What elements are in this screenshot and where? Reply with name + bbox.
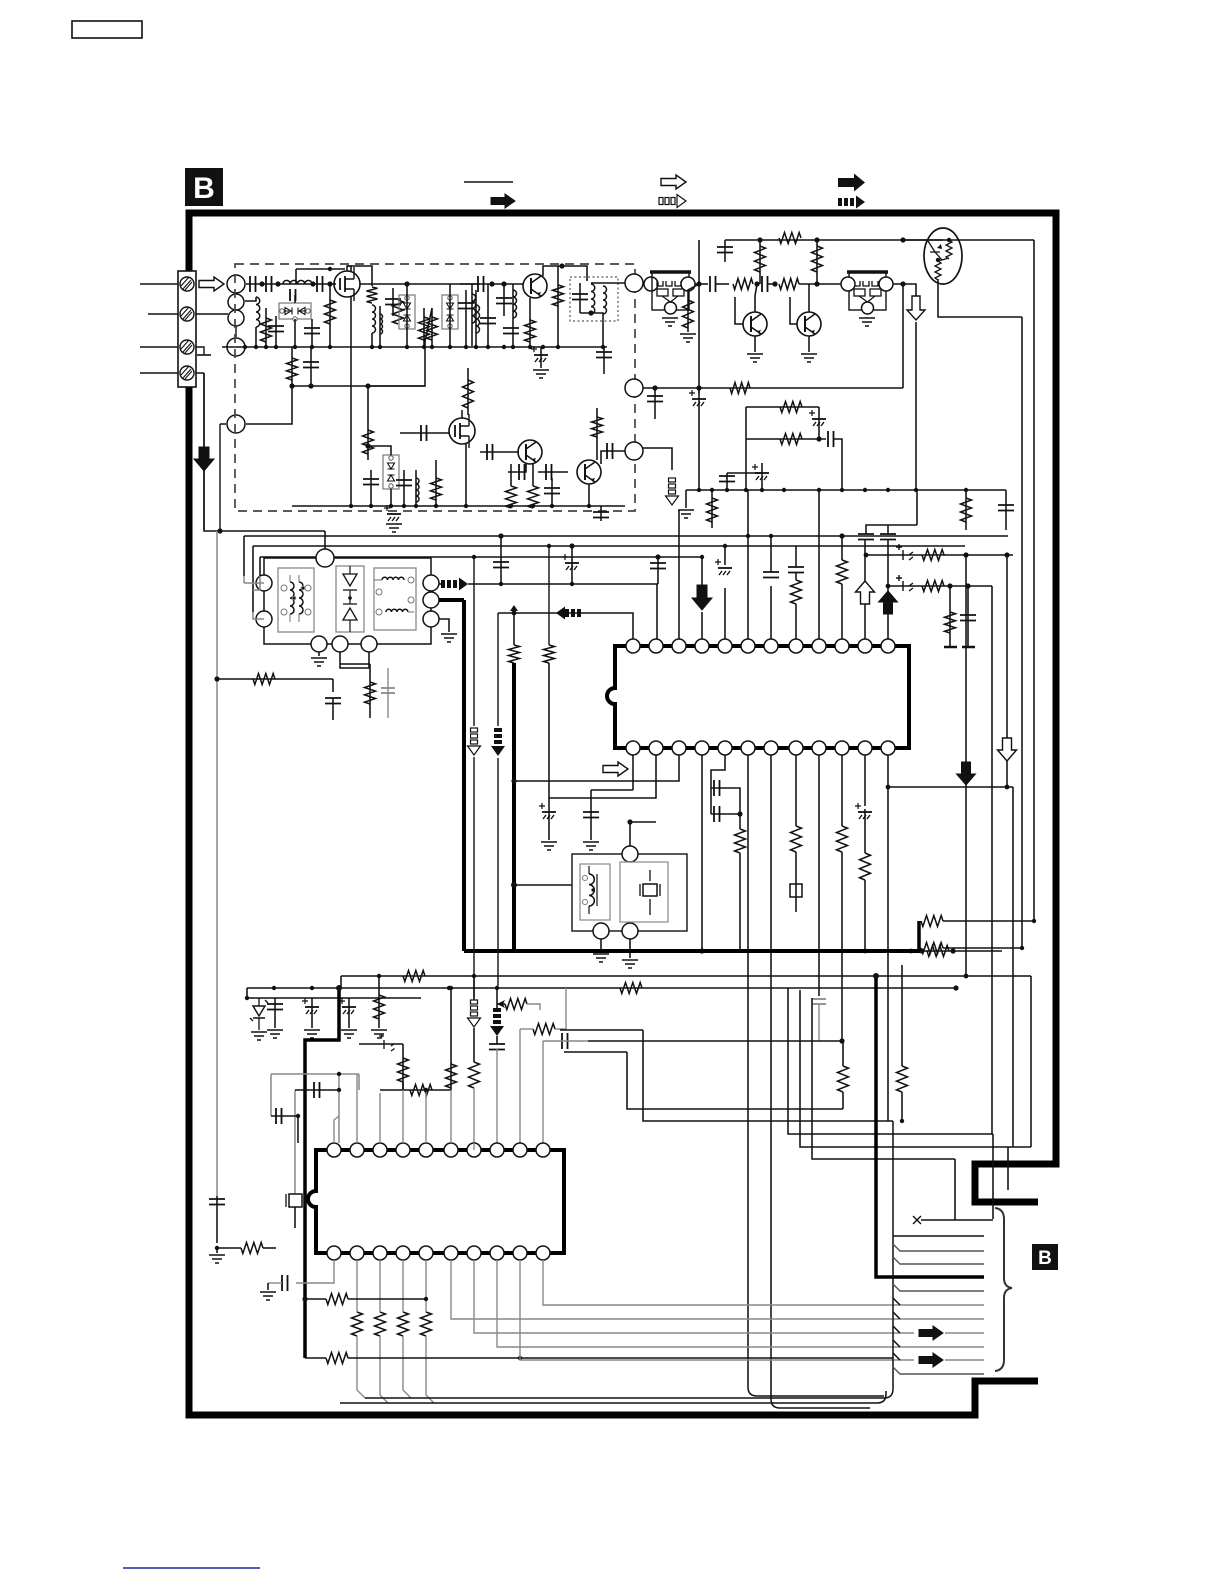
connector brace (right) <box>995 1208 1012 1371</box>
wire x812 elbow <box>812 998 955 1159</box>
wire U2 p11 down <box>543 1260 984 1305</box>
signal arrow (dashed hollow down) <box>669 478 676 482</box>
junction <box>570 582 574 586</box>
wire R14 <box>532 464 534 486</box>
wire C55 <box>311 998 313 1028</box>
ground <box>209 1255 225 1263</box>
capacitor C20 <box>487 444 493 460</box>
saw b2 stub <box>340 652 369 668</box>
wire FET source down <box>350 297 352 506</box>
wire C42 <box>657 557 659 584</box>
ground <box>341 1030 357 1038</box>
wire thick stub up <box>917 921 921 951</box>
capacitor C23 <box>546 464 552 480</box>
resistor R39 <box>374 995 385 1019</box>
wire U1 p18 down <box>770 755 772 1399</box>
wire y948 right <box>943 947 1022 949</box>
wire R10 <box>367 386 369 460</box>
inductor L5 <box>476 305 480 333</box>
feeder jog <box>893 1353 900 1360</box>
junction <box>900 237 905 242</box>
wire saw right1 <box>439 583 441 585</box>
junction <box>215 1246 219 1250</box>
wire t1 top <box>629 822 631 846</box>
wire Q2 collector <box>543 266 587 281</box>
junction <box>336 985 342 991</box>
VCC arrow (hollow up) <box>856 581 875 604</box>
ground <box>662 318 678 326</box>
resistor R11 <box>431 478 442 500</box>
row y555 <box>866 554 1013 556</box>
SAW right port 3 <box>423 611 439 627</box>
bundle line 1 <box>921 1219 993 1221</box>
B+ trace (thick) <box>305 988 339 1358</box>
transistor Q5 <box>577 460 601 484</box>
capacitor C2 <box>266 276 272 292</box>
wire U2 p7 up <box>473 1143 475 1150</box>
wire osc base row <box>460 283 524 285</box>
wire Q3 up <box>461 410 463 418</box>
wire terminal4 down <box>196 373 204 530</box>
wire c46 up <box>724 546 726 565</box>
diode box D3/D4 <box>399 295 415 329</box>
wire U1 p4 up <box>701 612 703 639</box>
power left stub <box>246 988 248 998</box>
wire U2 p12 down <box>520 1260 914 1360</box>
gray v339 <box>338 1074 340 1143</box>
ground <box>801 354 817 362</box>
wire x497 down <box>496 1036 498 1044</box>
junction <box>449 986 453 990</box>
resistor R2 <box>261 318 272 342</box>
wire q7 emitter <box>808 336 810 352</box>
junction <box>511 882 517 888</box>
wire q8 top <box>902 239 943 241</box>
wire r46 out <box>555 988 566 1029</box>
U1 pin 23 (bottom) <box>649 741 663 755</box>
junction <box>328 267 332 271</box>
wire R39 <box>378 976 380 1028</box>
capacitor C54 <box>267 1004 283 1010</box>
wire to filter2 <box>799 283 848 285</box>
section label B (bottom right) <box>1032 1244 1058 1270</box>
port (tuner AGC) <box>625 442 643 460</box>
junction <box>414 504 418 508</box>
wire r46 wire <box>520 1028 533 1030</box>
wire saw out thick <box>439 598 464 602</box>
port (tuner B+) <box>625 379 643 397</box>
transistor Q2 (oscillator) <box>523 274 547 298</box>
U2 pin 14 (bottom) <box>467 1246 481 1260</box>
wire r33 down <box>841 852 843 1041</box>
wire x474 pin <box>473 1088 475 1143</box>
junction <box>310 281 315 286</box>
rail y976 down <box>1030 976 1032 1147</box>
wire x549 upper <box>548 546 550 645</box>
capacitor C37 <box>858 534 874 540</box>
wire x474 up <box>473 976 475 1000</box>
junction <box>965 583 970 588</box>
junction <box>502 345 506 349</box>
junction <box>914 488 918 492</box>
U1 pin 24 (bottom) <box>626 741 640 755</box>
wire osc out <box>591 282 626 284</box>
wire c74 <box>967 586 969 646</box>
capacitor C17 <box>363 479 379 485</box>
wire c33 out <box>833 439 842 490</box>
resistor R10 <box>363 430 374 454</box>
inductor L4 <box>380 314 383 334</box>
U2 pin 8 (top) <box>490 1143 504 1157</box>
junction <box>370 345 374 349</box>
wire R12 <box>467 368 469 415</box>
wire U1 p14 down <box>864 755 866 806</box>
junction <box>587 504 591 508</box>
wire C13 <box>579 283 581 313</box>
junction <box>509 504 513 508</box>
wire y1358 <box>305 1357 326 1359</box>
junction <box>274 345 278 349</box>
wire dbox down <box>294 319 296 346</box>
gray wire saw left1 <box>256 582 264 584</box>
junction <box>464 504 468 508</box>
capacitor C62 <box>209 1199 225 1205</box>
row y586 <box>888 585 992 587</box>
capacitor C28 <box>762 276 768 292</box>
wire r43 merge <box>402 1082 404 1090</box>
inductor L6 <box>472 294 476 323</box>
junction <box>430 345 434 349</box>
ground <box>678 510 694 518</box>
wire y1041 right <box>588 1040 843 1042</box>
wire x992 elbow <box>992 1133 993 1135</box>
capacitor C47 <box>763 572 779 578</box>
transistor Q4 <box>518 440 542 464</box>
U2 pin 18 (bottom) <box>373 1246 387 1260</box>
junction <box>501 281 506 286</box>
wire x746b <box>745 439 747 490</box>
transistor Q8 (AGC, oval) <box>924 228 962 284</box>
wire mixer gate <box>400 432 450 434</box>
ground <box>441 634 457 642</box>
wire C36 <box>1005 490 1007 530</box>
wire r73 <box>949 586 951 646</box>
junction <box>886 584 891 589</box>
wire x497 pin <box>496 1049 498 1143</box>
wire C54 <box>274 998 276 1028</box>
electrolytic C53 <box>858 811 872 813</box>
wire y1030 <box>560 1029 643 1031</box>
junction <box>404 281 409 286</box>
capacitor C8 <box>458 303 474 309</box>
resistor R73 <box>945 612 956 633</box>
signal arrow (dashed hollow down) <box>471 1000 478 1004</box>
wire U2 p20 down <box>296 1260 334 1283</box>
U1 pin 18 (bottom) <box>764 741 778 755</box>
node E <box>227 415 245 433</box>
supply line x1007 <box>1006 555 1008 738</box>
gray v359 <box>358 1074 360 1090</box>
junction <box>950 948 955 953</box>
SAW inner diode cell <box>336 566 364 632</box>
wire x1 out <box>695 283 708 285</box>
capacitor C18 <box>396 480 412 486</box>
wire U1 p10 up <box>841 584 843 639</box>
signal arrow A (dashed hollow down) <box>471 728 478 732</box>
resistor R47 <box>241 1243 263 1254</box>
resistor R9 <box>287 358 298 380</box>
wire x902 segment <box>901 965 903 1066</box>
marker triangle <box>510 605 518 611</box>
T1 top port <box>622 846 638 862</box>
wire t1 left <box>514 884 572 886</box>
resistor R54 <box>838 1066 849 1092</box>
wire caps bridge <box>711 788 740 829</box>
resistor R8 <box>553 285 564 306</box>
resistor R21 <box>812 246 823 272</box>
junction <box>474 345 478 349</box>
legend dashed hollow arrow <box>659 198 663 205</box>
U1 pin 16 (bottom) <box>812 741 826 755</box>
wire t1 gnd1 <box>600 939 602 952</box>
rail y976 left stub <box>340 976 342 988</box>
wire RF row <box>246 283 336 285</box>
SAW filter block FL1 <box>264 558 431 644</box>
U2 pin 2 (top) <box>350 1143 364 1157</box>
wire C44 <box>387 668 389 718</box>
external wire stub 1 <box>140 283 178 285</box>
wire U2 col 1 down <box>380 1336 388 1403</box>
page border frame <box>189 213 1056 1415</box>
capacitor C52 <box>812 999 826 1004</box>
junction <box>697 488 701 492</box>
bus arrow (solid right) <box>919 1326 943 1340</box>
wire L5 <box>475 290 477 346</box>
feeder jog <box>893 1340 900 1347</box>
wire y1090 <box>380 1089 451 1091</box>
junction <box>725 488 729 492</box>
resistor R46 <box>533 1024 555 1035</box>
wire x643 elbow <box>643 1030 893 1121</box>
power rail y998 <box>247 997 421 999</box>
wire C16 <box>310 347 312 386</box>
AGC arrow (dashed solid left) <box>565 609 569 617</box>
wire L7 <box>512 284 514 346</box>
U2 pin 20 (bottom) <box>327 1246 341 1260</box>
wire U1 p6 up <box>747 490 749 639</box>
marker arrowhead <box>497 1000 505 1008</box>
resistor R16 <box>683 300 694 328</box>
wire RF mid row <box>360 283 480 285</box>
transistor Q1 (RF amp FET) <box>334 271 360 297</box>
capacitor C7 <box>385 299 401 305</box>
discriminator block T1 <box>572 854 687 931</box>
wire terminal2 to node <box>196 313 228 315</box>
wire x403 <box>402 1044 404 1090</box>
capacitor C70 <box>788 567 804 573</box>
wire U1 p5 up <box>724 588 726 639</box>
ceramic filter X1 <box>652 272 689 310</box>
wire c53 <box>864 809 866 853</box>
resistor R1 <box>367 287 378 303</box>
wire x700 down <box>698 240 700 284</box>
B+ to connector (thick) <box>876 976 984 1277</box>
wire x902 down <box>901 1092 903 1121</box>
junction <box>569 543 574 548</box>
capacitor C5 <box>290 289 296 301</box>
wire U1 p11 up <box>864 604 866 639</box>
resistor R34 <box>860 853 871 880</box>
inductor L3 <box>256 297 260 327</box>
ceramic filter X2 <box>849 272 886 310</box>
resistor R32 <box>791 826 802 852</box>
wire c60 <box>295 1089 339 1091</box>
junction <box>886 488 890 492</box>
wire c63 gnd <box>267 1283 269 1290</box>
U1 pin 6 (top) <box>741 639 755 653</box>
RF section ground rail <box>226 346 607 348</box>
IF signal arrow (hollow down) <box>907 296 925 320</box>
U1 pin 14 (bottom) <box>858 741 872 755</box>
U1 pin 13 (bottom) <box>881 741 895 755</box>
feeder curve <box>365 1389 893 1398</box>
no-connect x <box>913 1216 921 1224</box>
resistor R19 <box>755 246 766 272</box>
resistor R31 <box>735 829 746 853</box>
U2 pin 6 (top) <box>444 1143 458 1157</box>
resistor R58 <box>509 645 520 663</box>
wire saw right3 <box>439 619 449 632</box>
junction <box>550 504 554 508</box>
junction <box>909 949 914 954</box>
wire c61 <box>271 1115 298 1117</box>
inductor L10 <box>416 478 419 502</box>
SAW right port 1 <box>423 575 439 591</box>
rail V3 left <box>259 557 261 576</box>
port (tuner IF out) <box>625 274 643 292</box>
wire C8 <box>465 290 467 346</box>
wire r34 down <box>864 880 866 951</box>
wire q8 rail2 <box>1021 317 1023 948</box>
resistor R6 <box>427 317 438 340</box>
resistor R26 <box>961 498 972 522</box>
wire C56 <box>348 998 350 1028</box>
node D <box>227 338 245 356</box>
wire p13 rail down <box>1012 787 1014 1147</box>
ground (connector) <box>196 347 211 355</box>
wire x746 <box>745 407 747 439</box>
junction <box>1005 785 1010 790</box>
wire y1299 <box>305 1298 326 1300</box>
wire U1 p24 down <box>632 755 634 790</box>
crystal X2 <box>286 1194 305 1207</box>
wire x955 down <box>954 1159 956 1220</box>
AGC rail <box>686 489 1006 491</box>
wire r31 down <box>739 853 741 951</box>
diode box D7/D8 <box>383 455 399 489</box>
wire q7 base <box>790 297 797 324</box>
wire R13 <box>510 464 512 486</box>
wire r23 row <box>746 406 819 408</box>
wire U2 col 1 <box>379 1260 381 1312</box>
resistor R30 <box>791 580 802 604</box>
wire r45 <box>497 1003 505 1005</box>
wire q4 base <box>480 451 519 453</box>
thick IF bus down <box>462 600 466 951</box>
wire R3 <box>329 284 331 346</box>
junction <box>512 611 517 616</box>
junction <box>547 544 551 548</box>
wire osc top rail <box>347 266 351 271</box>
wire t1 link <box>630 821 656 823</box>
wire C17b <box>370 470 372 506</box>
resistor R18 <box>779 279 799 290</box>
capacitor C27 <box>710 276 716 292</box>
junction <box>217 528 222 533</box>
U1 pin 21 (bottom) <box>695 741 709 755</box>
bus arrow2 (solid right) <box>919 1353 943 1367</box>
junction <box>528 345 532 349</box>
U2 pin 13 (bottom) <box>490 1246 504 1260</box>
transistor Q6 <box>743 312 767 336</box>
wire R2 <box>265 308 267 346</box>
resistor R5 <box>419 317 430 340</box>
resistor R13 <box>506 486 517 508</box>
wire arrow line2 <box>945 1332 984 1334</box>
resistor R52 <box>326 1294 348 1305</box>
wire c27 out <box>715 283 729 285</box>
resistor R29 <box>365 682 376 704</box>
bundle line 2 <box>893 1235 984 1237</box>
signal arrow (solid down) <box>692 585 712 610</box>
junction <box>757 237 762 242</box>
U2 pin 15 (bottom) <box>444 1246 458 1260</box>
capacitor C74 <box>960 615 976 621</box>
wire x497 up <box>496 988 498 1008</box>
U1 pin 19 (bottom) <box>741 741 755 755</box>
junction <box>405 345 409 349</box>
ground <box>622 960 638 968</box>
junction <box>448 345 452 349</box>
wire q6 base <box>735 297 743 324</box>
U1 pin 15 (bottom) <box>835 741 849 755</box>
wire q6 <box>755 284 757 312</box>
wire U2 p3 up <box>379 1093 381 1143</box>
ground <box>593 954 609 962</box>
ground <box>267 1030 283 1038</box>
wire x800 elbow <box>800 990 1031 1147</box>
junction <box>953 985 958 990</box>
junction <box>377 974 381 978</box>
resistor R28 <box>253 674 275 685</box>
junction <box>963 552 968 557</box>
wire c59 down <box>542 1041 544 1143</box>
wire C29 <box>724 240 726 262</box>
wire c48 <box>590 790 592 840</box>
resistor R23 <box>780 402 802 413</box>
SAW inner transformer cell <box>278 568 314 632</box>
junction <box>447 986 451 990</box>
wire arrow line3 <box>945 1359 984 1361</box>
external wire stub 2 <box>148 313 178 315</box>
capacitor C40 <box>493 562 509 568</box>
resistor R44 <box>469 1062 480 1088</box>
supply arrow (hollow down) <box>998 738 1017 761</box>
junction <box>214 676 219 681</box>
junction <box>349 504 353 508</box>
U1 pin 10 (top) <box>835 639 849 653</box>
junction <box>873 973 879 979</box>
